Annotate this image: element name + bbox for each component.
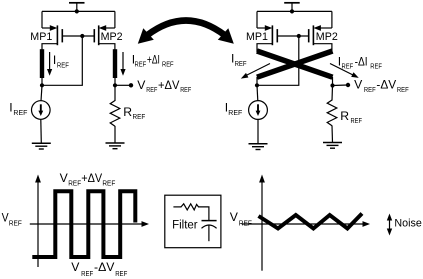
label V_REF (left graph axis) bbox=[2, 211, 23, 228]
current direction arrow I_REF-dI (right circuit right) bbox=[330, 64, 359, 78]
svg-text:REF: REF bbox=[102, 178, 115, 187]
wire thick bar to node B (left) bbox=[114, 78, 116, 85]
junction dot node B (left) bbox=[113, 83, 117, 87]
wire MP1 source to rail (left) bbox=[42, 11, 51, 28]
filter shunt capacitor curved bottom plate bbox=[202, 225, 217, 228]
svg-text:REF: REF bbox=[115, 269, 127, 278]
wire MP1 source to rail (right) bbox=[257, 11, 266, 28]
label I_REF-delta-I_REF (right) bbox=[338, 54, 383, 70]
transistor MP2 (right): gate bar, channel plate, source arrow bbox=[309, 25, 321, 45]
current direction arrow I_REF+dI (left circuit right branch) bbox=[120, 52, 125, 76]
current direction arrow I_REF (right circuit left) bbox=[241, 64, 270, 79]
svg-text:-ΔV: -ΔV bbox=[94, 260, 115, 274]
svg-text:R: R bbox=[340, 109, 349, 123]
resistor R_REF (left) bbox=[110, 101, 120, 127]
output node dot V_REF+dV (left) bbox=[129, 83, 133, 87]
svg-text:REF: REF bbox=[146, 85, 157, 94]
wire stub X to node C (right) bbox=[256, 77, 258, 85]
svg-text:Noise: Noise bbox=[394, 217, 421, 229]
svg-text:+ΔV: +ΔV bbox=[81, 171, 103, 185]
label I_REF+delta-I_REF bbox=[132, 53, 174, 69]
label I_REF (left branch current) bbox=[53, 53, 69, 70]
wire resistor to ground (right) bbox=[331, 126, 334, 143]
VDD supply symbol (left circuit) bbox=[69, 3, 85, 12]
label I_REF (right circuit left) bbox=[231, 51, 247, 68]
wire MP2 drain (left) bbox=[99, 44, 115, 50]
label I_REF (left current source) bbox=[9, 101, 27, 118]
wire stub X to node D (right) bbox=[332, 77, 334, 86]
thick wire MP1 drain branch (left) bbox=[40, 49, 44, 78]
svg-text:REF: REF bbox=[9, 219, 22, 228]
filter shunt capacitor top plate bbox=[202, 220, 217, 222]
svg-text:MP1: MP1 bbox=[246, 31, 268, 43]
svg-text:REF: REF bbox=[13, 108, 27, 117]
label V_REF (right graph axis) bbox=[230, 210, 252, 228]
current source I_REF (right): circle with arrow bbox=[249, 101, 268, 120]
transistor MP1 (right): source arrow, channel plate, gate bar bbox=[265, 25, 278, 45]
wire MP2 source to rail (left) bbox=[105, 11, 115, 28]
svg-text:V: V bbox=[71, 260, 80, 274]
svg-text:REF: REF bbox=[81, 269, 93, 278]
junction dot node C (right) bbox=[255, 83, 259, 87]
resistor R_REF (right) bbox=[327, 100, 337, 126]
svg-text:REF: REF bbox=[342, 62, 354, 71]
label V_REF-delta-V_REF (right) bbox=[354, 78, 409, 95]
thick wire MP2 drain branch (left) bbox=[113, 49, 117, 78]
junction dot node A (left) bbox=[40, 83, 44, 87]
current source I_REF (left): circle with arrow bbox=[32, 101, 51, 120]
junction dot node D (right) bbox=[330, 83, 334, 87]
diode-connection feedback wire gate to node C (right) bbox=[257, 36, 299, 85]
label R_REF (left) bbox=[123, 105, 145, 121]
wire node D to resistor (right) bbox=[331, 86, 334, 101]
wire MP2 drain (right) bbox=[313, 44, 332, 52]
svg-text:REF: REF bbox=[364, 85, 376, 94]
svg-text:-ΔV: -ΔV bbox=[376, 78, 397, 92]
output node stub wire (right) bbox=[333, 84, 348, 87]
residual noise triangle wave bbox=[259, 214, 363, 229]
svg-text:V: V bbox=[137, 78, 146, 92]
thick swapped wire MP2 drain to node C (right) bbox=[257, 51, 333, 77]
svg-text:REF: REF bbox=[228, 108, 242, 117]
svg-text:REF: REF bbox=[135, 60, 147, 69]
gate wire MP1-MP2 (left) bbox=[62, 35, 94, 37]
filter input wire bbox=[173, 206, 181, 208]
svg-text:+ΔI: +ΔI bbox=[147, 53, 160, 67]
svg-text:REF: REF bbox=[68, 178, 81, 187]
output node stub wire (left) bbox=[115, 84, 131, 86]
wire current source to ground (left) bbox=[40, 119, 43, 143]
svg-text:MP2: MP2 bbox=[101, 31, 123, 43]
filter series resistor bbox=[181, 204, 199, 210]
output node dot V_REF-dV (right) bbox=[346, 83, 350, 87]
horizontal axis (right graph) bbox=[242, 221, 370, 227]
svg-text:REF: REF bbox=[351, 116, 363, 125]
svg-text:I: I bbox=[53, 53, 56, 67]
wire node A to current source (left) bbox=[41, 85, 42, 101]
svg-text:REF: REF bbox=[162, 60, 174, 69]
junction dot on VDD rail (right) bbox=[290, 9, 294, 13]
wire thick bar to node A (left) bbox=[41, 78, 43, 85]
wire MP2 source to rail (right) bbox=[320, 11, 332, 28]
gate wire MP1-MP2 (right) bbox=[277, 35, 308, 37]
junction dot on VDD rail (left) bbox=[75, 9, 79, 13]
svg-text:REF: REF bbox=[180, 85, 191, 94]
square wave V_REF plus/minus delta bbox=[32, 191, 135, 257]
filter wire resistor to capacitor bbox=[198, 207, 209, 220]
svg-text:+ΔV: +ΔV bbox=[158, 78, 180, 92]
ground symbol (left circuit right branch) bbox=[106, 143, 125, 149]
noise amplitude double arrow bbox=[387, 214, 392, 236]
transistor MP2 (left): gate bar, channel plate, source arrow bbox=[94, 25, 106, 45]
VDD rail wire (left circuit) bbox=[42, 10, 115, 12]
svg-text:REF: REF bbox=[57, 61, 69, 70]
wire node C to current source (right) bbox=[256, 85, 259, 100]
junction dot on gate wire (left) bbox=[80, 34, 84, 38]
label V_REF+delta-V_REF (graph top) bbox=[60, 171, 116, 187]
junction dot on gate wire (right) bbox=[297, 34, 301, 38]
curved double-headed chopping arrow bbox=[138, 21, 234, 44]
VDD supply symbol (right circuit) bbox=[284, 3, 300, 12]
svg-text:-ΔI: -ΔI bbox=[355, 54, 368, 68]
ground symbol (right circuit right branch) bbox=[323, 143, 342, 149]
svg-text:MP2: MP2 bbox=[316, 31, 338, 43]
wire MP1 drain (left) bbox=[42, 44, 57, 50]
ground symbol (right circuit left branch) bbox=[249, 144, 268, 150]
svg-text:REF: REF bbox=[235, 59, 247, 68]
svg-text:REF: REF bbox=[239, 219, 253, 228]
label V_REF+delta-V_REF (left) bbox=[137, 78, 191, 94]
wire node B to resistor (left) bbox=[114, 85, 116, 101]
vertical axis (right graph) bbox=[259, 175, 265, 271]
svg-text:V: V bbox=[60, 171, 69, 185]
wire MP1 drain (right) bbox=[257, 44, 272, 52]
diode-connection feedback wire gate to node A (left) bbox=[42, 36, 82, 85]
svg-text:Filter: Filter bbox=[172, 220, 198, 232]
filter capacitor ground stub wire bbox=[208, 225, 210, 241]
current direction arrow I_REF (left branch) bbox=[47, 52, 52, 76]
svg-text:I: I bbox=[9, 101, 12, 115]
vertical axis (left graph) bbox=[35, 175, 41, 268]
svg-text:V: V bbox=[230, 210, 239, 224]
thick swapped wire MP1 drain to node D (right) bbox=[257, 51, 333, 77]
label R_REF (right) bbox=[340, 109, 362, 125]
label V_REF-delta-V_REF (graph bottom) bbox=[71, 260, 127, 278]
horizontal axis (left graph) bbox=[30, 221, 149, 227]
ground symbol (left circuit left branch) bbox=[32, 143, 51, 149]
svg-text:REF: REF bbox=[133, 112, 146, 121]
svg-text:REF: REF bbox=[370, 62, 382, 71]
VDD rail wire (right circuit) bbox=[257, 10, 332, 12]
wire resistor to ground (left) bbox=[114, 126, 116, 143]
wire current source to ground (right) bbox=[257, 119, 259, 143]
label I_REF (right current source) bbox=[225, 101, 243, 118]
svg-text:REF: REF bbox=[397, 85, 409, 94]
transistor MP1 (left): source arrow, channel plate, gate bar bbox=[50, 25, 63, 45]
svg-text:V: V bbox=[354, 78, 363, 92]
svg-text:MP1: MP1 bbox=[30, 31, 52, 43]
svg-text:R: R bbox=[123, 105, 132, 119]
filter block box bbox=[165, 195, 221, 248]
